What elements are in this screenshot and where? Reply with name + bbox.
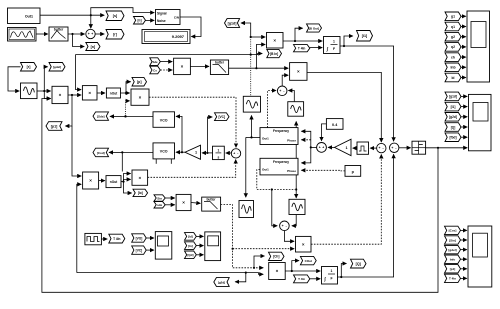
svg-text:[Sde]: [Sde] xyxy=(97,114,105,118)
svg-text:F: F xyxy=(330,277,332,281)
integrator 1/s xyxy=(213,146,225,159)
wire frequency control vertical xyxy=(301,131,316,163)
integrator block 1/F upper xyxy=(324,37,341,54)
from tag T 4In lower xyxy=(294,275,310,283)
goto tag [r] xyxy=(106,30,124,40)
wire sde to mult6 xyxy=(165,204,175,206)
block SB sample hold xyxy=(357,142,369,154)
wire vertical into sq2 bottom and sq3 top xyxy=(295,122,297,198)
wire sum2 to 1/s xyxy=(226,152,232,154)
svg-text:[fbd]: [fbd] xyxy=(449,136,456,140)
svg-text:+: + xyxy=(279,89,281,93)
svg-text:q2: q2 xyxy=(451,45,455,49)
wire sumBt out to multI xyxy=(284,231,294,242)
wire In to scope5 xyxy=(196,245,203,247)
block sq2 sine xyxy=(288,102,304,117)
integrator block 1/F lower xyxy=(322,267,338,285)
svg-text:ch: ch xyxy=(451,55,455,59)
wire loop left along bottom xyxy=(77,272,246,274)
constant 0.4 xyxy=(326,119,343,130)
wire branch up to goto B Out xyxy=(294,28,303,42)
svg-text:butter: butter xyxy=(215,61,225,65)
wire 1/s to gain1 xyxy=(202,152,213,154)
svg-text:butter: butter xyxy=(54,28,64,32)
goto tag [COut] xyxy=(300,256,316,264)
svg-text:×: × xyxy=(182,200,185,205)
goto tag [Ch] xyxy=(269,252,285,260)
wire sq1 vertical to multA input1 xyxy=(250,36,266,38)
wire Sin to mult6 xyxy=(165,197,175,199)
wire sumT up into mult4 in2 xyxy=(282,75,288,86)
wire sq3 bottom to sumBt right xyxy=(292,215,296,226)
goto tag [g1d] xyxy=(225,19,240,28)
svg-text:×: × xyxy=(139,95,142,100)
wire nOut to mult3 xyxy=(121,92,130,94)
multiplier 5 xyxy=(83,172,99,189)
wire from r to sqL block xyxy=(8,67,21,91)
svg-text:[Ch]: [Ch] xyxy=(273,255,279,259)
wire sq1 output up-left to g1d xyxy=(241,23,251,37)
wire nOut2 splits to mult7 xyxy=(121,174,132,194)
svg-text:VCO: VCO xyxy=(160,119,168,123)
block sq4 sine lower xyxy=(239,201,254,218)
wire butter3 out down to demod carriers xyxy=(221,205,264,268)
sum3 freq offset sum xyxy=(317,143,327,153)
svg-text:[Q]: [Q] xyxy=(451,125,456,129)
svg-text:[Cos]: [Cos] xyxy=(449,229,457,233)
wire big feedback loop xyxy=(42,99,438,293)
svg-text:nOut: nOut xyxy=(110,180,118,184)
wire T4In to 1/F second input xyxy=(310,47,322,49)
svg-text:-: - xyxy=(283,89,284,93)
svg-text:[Cod]: [Cod] xyxy=(97,151,105,155)
scope1 block xyxy=(467,11,490,82)
wire x72 down to mult5 in1 xyxy=(72,126,81,176)
svg-text:-: - xyxy=(395,146,396,150)
svg-text:-: - xyxy=(286,224,287,228)
scope4 block xyxy=(155,232,172,260)
wire mult3 out dashed to sum2 top xyxy=(149,97,236,147)
wire Co to multB xyxy=(160,69,172,71)
svg-text:[p1]: [p1] xyxy=(51,124,58,128)
wire sum1 to goto r xyxy=(95,33,104,35)
goto tag [Q] xyxy=(351,259,367,268)
svg-text:×: × xyxy=(276,269,279,274)
svg-text:[B Out]: [B Out] xyxy=(309,26,319,30)
svg-text:×: × xyxy=(302,242,305,247)
wire mult1 branch down via x72 xyxy=(65,94,73,126)
goto tag [B In] xyxy=(267,49,282,57)
wire mult2 to nOut xyxy=(97,92,105,94)
wire sq4 down to loop junction xyxy=(245,272,247,274)
wire T4In to 1/F lower in2 xyxy=(310,278,320,280)
wire mult4 out right down to sumA top xyxy=(307,72,381,142)
svg-text:+: + xyxy=(322,146,324,150)
sum1 add signal plus noise xyxy=(86,29,95,38)
wire mult5 to nOut2 xyxy=(99,180,105,182)
svg-text:[Id]: [Id] xyxy=(188,235,193,239)
svg-text:nOut: nOut xyxy=(110,92,118,96)
svg-text:Noise: Noise xyxy=(157,19,166,23)
wire branch down to goto g2d xyxy=(235,273,246,282)
svg-text:+: + xyxy=(88,32,90,36)
sumA circle xyxy=(377,143,386,152)
quad quantizer block xyxy=(412,141,426,154)
wire branch up to goto gdel xyxy=(43,67,47,92)
svg-text:[I1]: [I1] xyxy=(451,105,456,109)
goto tag [Sde] xyxy=(93,112,109,120)
constant p xyxy=(345,166,361,177)
svg-text:[VO]: [VO] xyxy=(136,236,143,240)
svg-text:[I1]: [I1] xyxy=(362,34,367,38)
block VCO1 xyxy=(153,112,175,128)
wire NCO2 Out1 dashed down right xyxy=(257,170,295,191)
svg-text:[n]: [n] xyxy=(91,45,96,49)
wire multA to integrator 1/F xyxy=(283,40,322,42)
noise source block xyxy=(8,28,37,42)
wire Out1 to goto s xyxy=(40,14,104,16)
svg-text:[s]: [s] xyxy=(113,14,117,18)
wire VC to scope4 xyxy=(146,249,154,251)
svg-text:[g2d]: [g2d] xyxy=(449,115,457,119)
svg-text:×: × xyxy=(297,69,300,74)
svg-text:×: × xyxy=(88,90,91,95)
svg-text:C/N: C/N xyxy=(174,16,179,20)
wire sqL to mult1 xyxy=(37,90,51,92)
block VCO2 xyxy=(153,143,175,159)
wire butter1 to sum1 xyxy=(68,33,85,35)
wire C/N to display xyxy=(180,17,201,37)
svg-text:[gdel]: [gdel] xyxy=(53,65,61,69)
wire multQ out to 1/F lower xyxy=(285,270,320,272)
from tag [VC] lower xyxy=(132,246,147,254)
svg-text:s: s xyxy=(217,155,219,159)
svg-text:Frequency: Frequency xyxy=(273,160,289,164)
wire multB to butter2 xyxy=(190,65,209,67)
wire mult6 to butter3 xyxy=(191,202,200,205)
svg-text:F: F xyxy=(333,47,335,51)
wire 0.4 to sum3 top xyxy=(322,124,327,141)
wire mult1 to mult2 xyxy=(68,94,81,96)
wire gain2 to sum3 xyxy=(328,146,334,148)
svg-text:1: 1 xyxy=(345,146,347,150)
wire SB to gain2 xyxy=(353,147,357,149)
svg-text:9.2097: 9.2097 xyxy=(172,34,185,39)
svg-text:-: - xyxy=(237,152,238,156)
svg-text:COut: COut xyxy=(305,259,312,263)
pulse generator block xyxy=(85,233,102,244)
svg-text:T 4In: T 4In xyxy=(298,47,305,51)
from tag T 4In upper xyxy=(294,45,310,52)
svg-text:×: × xyxy=(181,64,184,69)
svg-text:[Sin]: [Sin] xyxy=(449,238,456,242)
wire Out1 branch down to sum1 xyxy=(90,14,92,28)
svg-text:T 4In: T 4In xyxy=(298,277,305,281)
svg-text:1: 1 xyxy=(331,269,333,273)
multiplier 3 xyxy=(131,89,149,105)
wire Id to scope5 xyxy=(196,235,203,237)
butter1 filter block xyxy=(49,27,68,41)
from tag [n] noise ref xyxy=(134,17,146,25)
svg-text:+: + xyxy=(282,224,284,228)
gain1 triangle xyxy=(185,145,201,159)
from tag [In] xyxy=(185,242,197,250)
svg-text:×: × xyxy=(59,93,62,98)
goto tag [p] xyxy=(132,77,147,86)
svg-text:[Io]: [Io] xyxy=(138,191,143,195)
svg-text:T 4In: T 4In xyxy=(113,237,120,241)
sumT carrier sum xyxy=(277,86,287,96)
wire loop into multQ in2 xyxy=(246,273,263,275)
svg-text:g1: g1 xyxy=(451,15,455,19)
wire sq1 vertical middle segment xyxy=(250,37,252,96)
multiplier I xyxy=(296,236,312,252)
svg-text:Frequency: Frequency xyxy=(273,129,289,133)
svg-text:[r]: [r] xyxy=(113,33,117,37)
svg-text:sde: sde xyxy=(157,203,163,207)
svg-text:Id: Id xyxy=(451,76,454,80)
sum2 loop filter sum xyxy=(231,149,240,158)
from tag [Id] xyxy=(185,233,197,241)
sumBt bottom sum xyxy=(280,221,290,231)
from tags feeding scope1 (g1 q1 g2 q2 ch Inb Id) xyxy=(445,12,466,82)
multiplier 1 xyxy=(52,86,68,103)
from tag [Co] upper xyxy=(150,66,161,74)
wire butter2 to mult4 xyxy=(229,67,289,69)
svg-text:+: + xyxy=(391,146,393,150)
wire VO to scope4 xyxy=(146,237,154,239)
svg-text:[p]: [p] xyxy=(137,80,142,84)
multiplier Q xyxy=(269,263,286,280)
goto tag [p1] left xyxy=(46,122,62,131)
wire carrier stub to goto B In xyxy=(251,54,263,55)
goto tag [g2d] xyxy=(214,278,229,287)
subsystem Out1 (source) xyxy=(8,8,41,24)
from tags feeding scope2 xyxy=(445,92,467,141)
svg-text:×: × xyxy=(138,175,141,180)
wire multI out to sumA bottom xyxy=(311,155,381,245)
goto tag [I1] xyxy=(357,31,373,42)
svg-text:[r]: [r] xyxy=(27,65,31,69)
wire 1/F lower to goto Q xyxy=(338,264,347,278)
svg-text:[B In]: [B In] xyxy=(270,52,278,56)
wire VCO1 out to Sde xyxy=(110,115,153,117)
svg-text:[g1d]: [g1d] xyxy=(449,95,457,99)
block nOut xyxy=(106,88,120,98)
multiplier B xyxy=(174,58,191,74)
svg-text:VCO: VCO xyxy=(160,150,168,154)
multiplier 6 xyxy=(176,194,191,210)
goto tag [Cod] xyxy=(93,148,109,157)
wire branch up to goto Ch xyxy=(253,256,265,269)
C/N meter block Signal Noise xyxy=(156,10,181,25)
scope3 block xyxy=(468,226,492,287)
wire branch up to goto VC xyxy=(207,117,212,153)
wire NCO1 Out1 to sq1 bottom and sq4 xyxy=(246,116,260,198)
wire Sde to multB xyxy=(160,61,172,63)
block sqL hilbert xyxy=(21,83,38,99)
goto tag [VC] xyxy=(215,113,230,121)
goto tag [gdel] xyxy=(49,63,65,72)
goto tag [B Out] xyxy=(307,24,322,32)
wire carrier long to the left xyxy=(76,54,252,90)
from tag [VO] xyxy=(132,234,147,242)
VCO2 bottom stubs xyxy=(156,159,171,164)
butter3 filter block xyxy=(202,197,221,211)
svg-text:×: × xyxy=(273,38,276,43)
svg-text:+: + xyxy=(319,146,321,150)
svg-text:1: 1 xyxy=(195,151,197,155)
svg-text:Out1: Out1 xyxy=(262,167,269,171)
svg-text:[gdel]: [gdel] xyxy=(448,248,456,252)
NCO block1 Frequency Phase Out1 xyxy=(260,128,298,145)
svg-text:Out1: Out1 xyxy=(25,14,33,18)
wire sqL branch down to mult1 in2 xyxy=(44,91,50,99)
wire branch up to goto p xyxy=(125,82,131,94)
block sq1 sine carrier xyxy=(243,96,260,112)
svg-text:g2: g2 xyxy=(451,35,455,39)
svg-text:[g1d]: [g1d] xyxy=(228,21,237,25)
wire p to NCO2 phase xyxy=(301,169,345,172)
from tag sde xyxy=(154,202,165,208)
wire Qd to scope5 xyxy=(196,254,203,256)
svg-text:+: + xyxy=(91,32,93,36)
block sq3 sine lower right xyxy=(289,199,305,214)
wire pulse to T4In goto xyxy=(101,238,107,240)
svg-text:q1: q1 xyxy=(451,25,455,29)
svg-text:Sin: Sin xyxy=(157,196,162,200)
svg-text:[n]: [n] xyxy=(137,19,141,23)
multiplier A xyxy=(267,33,284,49)
svg-text:[Q]: [Q] xyxy=(356,262,361,266)
wire 1/F loop right and down to sumB top xyxy=(343,45,394,141)
wire sq2 top up into sumT right xyxy=(288,91,294,102)
svg-text:-: - xyxy=(383,146,384,150)
svg-text:1: 1 xyxy=(333,39,335,43)
multiplier 4 xyxy=(290,63,307,81)
gain2 triangle xyxy=(335,139,352,155)
svg-text:[VC]: [VC] xyxy=(136,248,143,252)
wire butter1 branch to goto n xyxy=(71,33,84,47)
wire from n to C/N noise input xyxy=(146,19,155,21)
wire Out1 branch to C/N signal input xyxy=(91,8,154,16)
wire butter2 branch up to multA input2 xyxy=(255,45,265,70)
svg-text:Info: Info xyxy=(450,258,456,262)
block nOut2 xyxy=(106,176,121,188)
wire 1/F lower loop to sumB bottom xyxy=(340,154,393,278)
svg-text:1: 1 xyxy=(217,149,219,153)
wire sumA to SB xyxy=(370,147,376,149)
butter2 filter block xyxy=(210,60,228,75)
wire branch to multI in2 xyxy=(232,248,295,250)
svg-text:T 4In: T 4In xyxy=(449,277,456,281)
scope5 block xyxy=(205,232,221,261)
NCO block2 Frequency Phase Out1 xyxy=(260,158,298,175)
display block 9.2097 xyxy=(142,30,190,44)
sumB circle xyxy=(390,143,399,152)
svg-text:Out1: Out1 xyxy=(262,137,269,141)
svg-text:0.4: 0.4 xyxy=(332,123,338,127)
svg-text:Inb: Inb xyxy=(450,66,455,70)
wire x7sq vertical up into sumT left xyxy=(268,91,276,128)
wire x7 squared dashed to sum2 bottom xyxy=(148,160,236,178)
wire gain1 to VCO2 and VCO1 xyxy=(176,116,185,153)
wire loop up into mult5 in2 xyxy=(77,184,81,272)
svg-text:[Qd]: [Qd] xyxy=(187,253,193,257)
wire branch down to sumBt left xyxy=(272,190,277,226)
svg-text:×: × xyxy=(89,178,92,183)
svg-text:Sde: Sde xyxy=(152,60,158,64)
svg-text:[VC]: [VC] xyxy=(218,115,225,119)
wire Cod branch stub down xyxy=(121,152,123,171)
svg-text:+: + xyxy=(379,146,381,150)
svg-text:Signal: Signal xyxy=(157,11,167,15)
wire VCO2 out to Cod xyxy=(109,151,153,153)
goto tag T 4In xyxy=(109,234,125,243)
goto tag [s] xyxy=(106,11,124,21)
svg-text:+: + xyxy=(233,152,235,156)
wire quad to scope2 input6 xyxy=(426,147,467,149)
from tag [r] receiver input xyxy=(21,63,37,72)
svg-text:butter: butter xyxy=(206,198,216,202)
wire branch up to goto COut xyxy=(291,261,299,273)
svg-text:[In]: [In] xyxy=(188,244,193,248)
wire sumB to quad block xyxy=(399,147,411,149)
scope2 block xyxy=(469,94,492,150)
svg-text:[p1]: [p1] xyxy=(450,267,456,271)
from tag [Sde] upper xyxy=(150,58,161,66)
wire 1/F up to goto I1 xyxy=(340,36,353,46)
wire noise to butter1 xyxy=(36,33,48,35)
svg-text:Phase: Phase xyxy=(287,169,296,173)
wire carrier L into mult3 in2 xyxy=(124,101,129,118)
from tags feeding scope3 xyxy=(445,226,467,282)
svg-text:Phase: Phase xyxy=(287,139,296,143)
svg-text:[g2d]: [g2d] xyxy=(218,280,225,284)
multiplier 2 xyxy=(82,86,97,100)
from tag [Qd] xyxy=(185,251,197,259)
multiplier 7 squarer xyxy=(132,170,148,185)
goto tag [Io] xyxy=(133,189,148,196)
goto tag [n] xyxy=(86,43,100,51)
svg-text:Co: Co xyxy=(153,68,157,72)
from tag Sin xyxy=(154,195,165,201)
